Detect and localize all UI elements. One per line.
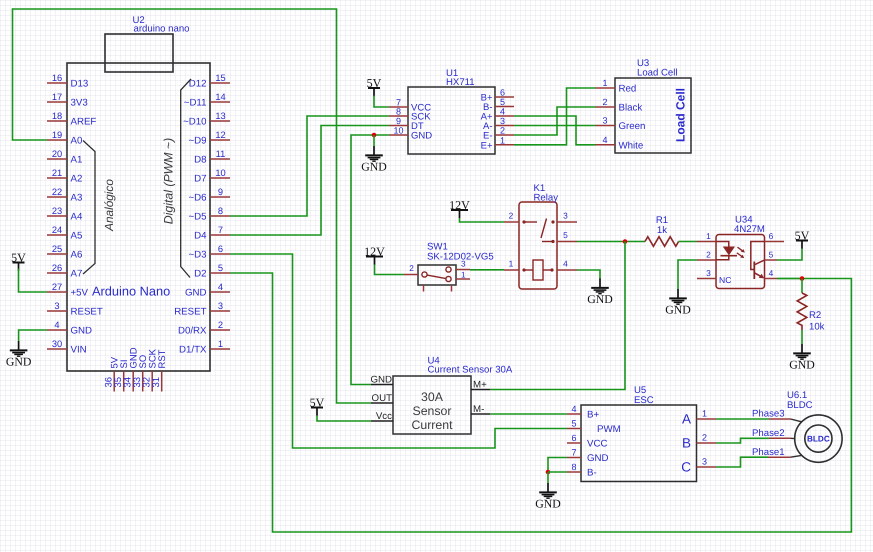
wire 5V to U4 Vcc [317, 416, 371, 421]
U2 pin 12 ~D9 [188, 130, 230, 147]
svg-text:2: 2 [706, 250, 711, 260]
svg-text:GND: GND [411, 131, 432, 142]
U6.1 lead phase2 [769, 437, 795, 439]
svg-text:A6: A6 [71, 250, 83, 261]
svg-text:3: 3 [54, 301, 59, 311]
svg-text:Digital (PWM ~): Digital (PWM ~) [162, 138, 176, 224]
svg-text:NC: NC [719, 275, 731, 285]
U2 pin 23 A4 [47, 206, 83, 223]
U1 pin 9 DT [389, 116, 424, 132]
power 12V at K1 [449, 198, 470, 219]
U4 pin Vcc [371, 411, 393, 422]
U2 pin 18 AREF [47, 111, 96, 128]
wire R1 to U34 pin 1 [679, 241, 697, 243]
resistor R1 1k [645, 215, 679, 246]
svg-text:21: 21 [52, 168, 62, 178]
relay K1 [519, 183, 558, 289]
connector U3 Load Cell [615, 58, 691, 153]
svg-text:31: 31 [151, 377, 162, 388]
wire U4 M- to U5 B+ [490, 413, 567, 415]
U2 pin 31 RST [151, 349, 168, 391]
U2 pin 25 A6 [47, 244, 82, 261]
svg-text:Sensor: Sensor [413, 404, 452, 418]
U2 pin 13 ~D10 [183, 111, 230, 128]
wire junction to R2 [801, 279, 803, 294]
svg-text:M-: M- [473, 404, 484, 415]
svg-text:VCC: VCC [587, 439, 607, 450]
U3 pin 3 Green [596, 116, 646, 133]
U1 pin 7 VCC [389, 98, 431, 114]
power 5V at U34 [795, 228, 810, 249]
svg-text:25: 25 [52, 244, 62, 254]
svg-text:RESET: RESET [174, 307, 206, 318]
svg-text:13: 13 [215, 111, 225, 121]
wire SW1 pin 3 to K1 pin 1 [470, 269, 504, 271]
K1 pin 3 [557, 211, 577, 223]
svg-text:1: 1 [218, 339, 223, 349]
svg-text:1: 1 [602, 78, 607, 88]
U34 pin 3 NC [697, 268, 731, 285]
svg-text:2: 2 [602, 97, 607, 107]
U2 pin 20 A1 [47, 149, 82, 166]
U2 pin 15 D12 [189, 73, 230, 90]
mcu U2 arduino nano [67, 15, 210, 371]
ground at U2 [6, 341, 32, 368]
U3 pin 2 Black [596, 97, 643, 114]
svg-text:4N27M: 4N27M [734, 224, 765, 235]
SW1 pin 3 [456, 260, 470, 270]
U5 pin 2 B [682, 433, 716, 451]
U34 phototransistor [751, 242, 765, 280]
svg-text:HX711: HX711 [446, 77, 475, 88]
wire junction to U4 M+ [490, 242, 625, 390]
U34 pin 2 [697, 250, 716, 261]
svg-text:A: A [682, 412, 691, 427]
svg-text:6: 6 [769, 231, 774, 241]
svg-text:GND: GND [587, 292, 613, 306]
svg-text:GND: GND [6, 354, 32, 368]
svg-text:10: 10 [215, 168, 225, 178]
svg-text:3: 3 [218, 301, 223, 311]
svg-text:5: 5 [571, 419, 576, 429]
svg-text:10: 10 [393, 126, 403, 136]
svg-text:1k: 1k [657, 225, 667, 236]
svg-text:~D3: ~D3 [188, 250, 206, 261]
junction U34 pin 4 / R2 [800, 276, 805, 281]
U1 pin 3 A- [483, 116, 514, 132]
svg-text:GND: GND [665, 302, 691, 316]
U2 pin 6 ~D3 [188, 244, 230, 261]
svg-text:Phase2: Phase2 [752, 428, 785, 439]
svg-text:3: 3 [706, 268, 711, 278]
U1 pin 5 B- [483, 97, 514, 113]
wire R2 to ground [801, 330, 803, 344]
svg-text:3: 3 [500, 116, 505, 126]
svg-text:2: 2 [509, 211, 514, 221]
svg-text:E+: E+ [481, 140, 493, 151]
svg-text:~D10: ~D10 [183, 117, 207, 128]
svg-text:D4: D4 [194, 231, 207, 242]
U2 pin 16 D13 [47, 73, 88, 90]
U4 pin GND [370, 375, 393, 386]
svg-text:A2: A2 [71, 174, 83, 185]
U2 pin 27 +5V [47, 282, 89, 299]
U2 pin 33 SO [132, 355, 149, 392]
esc U5 [581, 385, 697, 482]
wire D4 to U1 DT [230, 126, 389, 236]
svg-text:A1: A1 [71, 155, 83, 166]
U5 pin 5 PWM [567, 419, 621, 436]
ground at K1 [587, 279, 613, 306]
U2 pin 8 ~D5 [188, 206, 230, 223]
junction K1 pin 5 / R1 / M+ [623, 239, 628, 244]
svg-text:Relay: Relay [534, 193, 559, 204]
svg-text:6: 6 [571, 433, 576, 443]
svg-text:2: 2 [218, 320, 223, 330]
svg-text:19: 19 [52, 130, 62, 140]
wire U1 E+ to U3 Red [514, 88, 596, 145]
U4 pin M+ [471, 380, 490, 391]
svg-text:AREF: AREF [71, 117, 97, 128]
svg-text:Load Cell: Load Cell [637, 68, 678, 79]
motor U6.1 BLDC [787, 390, 842, 462]
svg-text:4: 4 [218, 282, 223, 292]
svg-text:7: 7 [571, 448, 576, 458]
svg-text:~D9: ~D9 [188, 136, 206, 147]
SW1 pin 1 [456, 271, 470, 280]
SW1 bottom stubs [424, 285, 452, 292]
resistor R2 10k [797, 293, 824, 333]
svg-text:GND: GND [587, 453, 609, 464]
K1 pin 4 [557, 259, 577, 271]
svg-text:9: 9 [218, 187, 223, 197]
U5 pin 7 GND [567, 448, 609, 465]
wire U5 B to Phase2 [716, 438, 769, 443]
svg-text:8: 8 [571, 462, 576, 472]
K1 coil [522, 260, 553, 280]
svg-text:17: 17 [52, 92, 62, 102]
svg-text:24: 24 [52, 225, 62, 235]
wire U5 GND to junction [548, 458, 567, 473]
svg-text:GND: GND [361, 159, 387, 173]
wire U1 GND to U4 GND [351, 135, 389, 385]
svg-text:1: 1 [509, 259, 514, 269]
wire U5 C to Phase1 [716, 457, 768, 467]
svg-text:12: 12 [215, 130, 225, 140]
K1 pin 5 [557, 230, 577, 242]
SW1 pin 2 [404, 264, 418, 275]
svg-text:1: 1 [706, 231, 711, 241]
svg-text:Vcc: Vcc [376, 411, 392, 422]
svg-text:VIN: VIN [71, 345, 87, 356]
svg-text:14: 14 [215, 92, 225, 102]
U2 pin 36 5V [104, 356, 121, 391]
U5 pin 4 B+ [567, 404, 599, 421]
U34 light arrows [737, 247, 745, 258]
U4 pin M- [471, 404, 490, 415]
U6.1 lead phase1 [768, 455, 802, 457]
svg-text:Current: Current [411, 418, 453, 432]
power 5V at U4 [310, 395, 325, 416]
svg-text:White: White [619, 140, 644, 151]
svg-text:R2: R2 [809, 310, 821, 321]
K1 switch contacts [522, 219, 554, 244]
wire U1 A+ to U3 White [514, 116, 596, 145]
svg-text:ESC: ESC [634, 395, 654, 406]
svg-text:Black: Black [619, 103, 643, 114]
svg-text:~D6: ~D6 [188, 193, 206, 204]
svg-text:27: 27 [52, 282, 62, 292]
svg-text:1: 1 [461, 271, 466, 280]
svg-text:Phase1: Phase1 [752, 447, 785, 458]
ground at U34 [665, 289, 691, 316]
svg-text:8: 8 [396, 107, 401, 117]
wire U5 A to Phase3 [716, 418, 769, 420]
U2 pin 35 SI [113, 360, 130, 392]
wire junction to ground [547, 472, 549, 483]
svg-text:9: 9 [396, 116, 401, 126]
U1 pin 2 E- [483, 126, 514, 142]
svg-text:BLDC: BLDC [807, 435, 830, 444]
svg-text:D12: D12 [189, 79, 207, 90]
svg-text:B: B [682, 436, 691, 451]
wire K1 pin 4 to ground [577, 270, 600, 279]
svg-text:A5: A5 [71, 231, 83, 242]
U2 digital bracket [181, 79, 191, 278]
svg-text:8: 8 [218, 206, 223, 216]
K1 pin 2 [504, 211, 519, 223]
U2 pin 11 D8 [194, 149, 230, 166]
U1 pin 4 A+ [481, 107, 514, 123]
wire K1 pin 5 to R1 [577, 241, 645, 243]
svg-text:Red: Red [619, 84, 637, 95]
svg-text:B-: B- [587, 468, 597, 479]
U34 pin 4 [765, 268, 778, 279]
svg-text:D0/RX: D0/RX [178, 326, 207, 337]
wire U34 pin 2 to ground [678, 260, 697, 289]
svg-text:2: 2 [500, 126, 505, 136]
K1 pin 1 [504, 259, 519, 271]
svg-text:11: 11 [216, 149, 226, 159]
svg-text:4: 4 [602, 135, 607, 145]
svg-text:3: 3 [602, 116, 607, 126]
U2 pin 17 3V3 [47, 92, 88, 109]
svg-text:7: 7 [218, 225, 223, 235]
U2 pin 21 A2 [47, 168, 82, 185]
wire U1 E- to U3 Black [514, 107, 596, 135]
svg-text:A0: A0 [71, 136, 83, 147]
U3 pin 4 White [596, 135, 644, 152]
svg-text:6: 6 [500, 88, 505, 98]
U2 pin 7 D4 [194, 225, 230, 242]
svg-text:22: 22 [52, 187, 62, 197]
ground at R2 [789, 344, 815, 371]
switch SW1 SK-12D02-VG5 [418, 242, 494, 286]
U2 pin 19 A0 [47, 130, 83, 147]
svg-text:GND: GND [789, 357, 815, 371]
power 5V at U2 [11, 250, 26, 271]
svg-text:Current Sensor 30A: Current Sensor 30A [428, 365, 513, 376]
svg-text:OUT: OUT [372, 393, 393, 404]
svg-text:6: 6 [218, 244, 223, 254]
U1 pin 10 GND [389, 126, 432, 142]
svg-text:Phase3: Phase3 [752, 409, 785, 420]
wire 5V to U2 +5V [19, 269, 48, 293]
svg-text:30A: 30A [421, 390, 444, 404]
svg-text:23: 23 [52, 206, 62, 216]
U34 LED [716, 242, 737, 260]
svg-text:GND: GND [185, 288, 207, 299]
svg-text:5: 5 [563, 230, 568, 240]
U5 pin 3 C [681, 457, 716, 475]
svg-text:2: 2 [409, 264, 414, 273]
svg-text:GND: GND [535, 496, 561, 510]
U2 pin 14 ~D11 [184, 92, 230, 109]
U1 pin 6 B+ [481, 88, 514, 104]
wire junction to U5 B- [548, 471, 567, 473]
svg-text:A3: A3 [71, 193, 83, 204]
U2 pin 24 A5 [47, 225, 82, 242]
wire D5 to U1 SCK [230, 116, 389, 216]
wire U2 GND to ground [19, 330, 47, 341]
svg-text:4: 4 [563, 259, 568, 269]
svg-text:2: 2 [702, 433, 707, 443]
svg-text:Analógico: Analógico [102, 179, 116, 232]
svg-text:3: 3 [461, 260, 466, 269]
wire U34 pin 4 to junction [777, 278, 802, 280]
power 5V at U1 [367, 76, 382, 97]
svg-text:GND: GND [370, 375, 392, 386]
svg-text:3V3: 3V3 [71, 98, 88, 109]
U2 pin 10 D7 [194, 168, 230, 185]
U4 pin OUT [371, 393, 393, 404]
svg-text:20: 20 [52, 149, 62, 159]
ground stem at U1 [373, 135, 375, 146]
svg-text:PWM: PWM [597, 424, 621, 435]
svg-text:26: 26 [52, 263, 62, 273]
svg-text:~D11: ~D11 [184, 98, 207, 109]
svg-text:D7: D7 [194, 174, 206, 185]
U2 pin 3 RESET [174, 301, 230, 318]
wire U1 A- to U3 Green [514, 125, 596, 127]
svg-text:RST: RST [157, 349, 168, 368]
U5 pin 8 B- [567, 462, 597, 479]
U2 pin 26 A7 [47, 263, 82, 280]
svg-text:15: 15 [215, 73, 225, 83]
ground at U5 [535, 483, 561, 510]
svg-text:Load Cell: Load Cell [674, 88, 688, 142]
svg-text:Green: Green [619, 121, 646, 132]
U2 pin 22 A3 [47, 187, 82, 204]
svg-text:D13: D13 [71, 79, 89, 90]
svg-text:A4: A4 [71, 212, 83, 223]
U2 pin 2 D0/RX [178, 320, 230, 337]
svg-text:+5V: +5V [71, 288, 89, 299]
U2 pin 30 VIN [47, 339, 87, 356]
U2 pin 34 GND [123, 347, 140, 391]
svg-text:B+: B+ [587, 410, 599, 421]
svg-text:D8: D8 [194, 155, 206, 166]
power 12V at SW1 [364, 244, 385, 264]
wire D3 to U5 PWM [230, 254, 567, 448]
svg-text:BLDC: BLDC [787, 400, 813, 411]
U6.1 lead phase3 [769, 419, 802, 422]
sensor U4 Current Sensor 30A [393, 356, 513, 435]
svg-text:5: 5 [500, 97, 505, 107]
svg-text:arduino nano: arduino nano [134, 24, 190, 35]
svg-text:5: 5 [769, 250, 774, 260]
junction U5 GND / B- [546, 470, 551, 475]
U2 pin 9 ~D6 [188, 187, 230, 204]
svg-text:GND: GND [71, 326, 93, 337]
U1 pin 8 SCK [389, 107, 431, 123]
U5 pin 6 VCC [567, 433, 607, 450]
svg-text:16: 16 [52, 73, 62, 83]
svg-text:~D5: ~D5 [188, 212, 206, 223]
svg-text:1: 1 [702, 409, 707, 419]
svg-text:Arduino Nano: Arduino Nano [92, 284, 170, 299]
wire 5V to U34 pin 5 [777, 249, 802, 260]
U1 pin 1 E+ [481, 135, 514, 151]
wire 5V to U1 VCC [374, 96, 389, 107]
wire 12V to K1 pin 2 [460, 218, 505, 222]
U2 analog bracket [83, 141, 95, 275]
svg-text:C: C [681, 460, 691, 475]
wire A0 to U4 OUT [13, 9, 372, 403]
U2 pin 5 D2 [194, 263, 230, 280]
wire 12V to SW1 pin 2 [375, 265, 405, 275]
junction U1 GND [372, 133, 377, 138]
svg-text:5: 5 [218, 263, 223, 273]
svg-text:D1/TX: D1/TX [179, 345, 207, 356]
U3 pin 1 Red [596, 78, 637, 95]
svg-text:10k: 10k [809, 322, 825, 333]
svg-text:30: 30 [52, 339, 62, 349]
svg-text:3: 3 [702, 457, 707, 467]
U2 pin 32 SCK [142, 348, 159, 391]
svg-text:M+: M+ [473, 380, 487, 391]
svg-text:18: 18 [52, 111, 62, 121]
svg-text:1: 1 [500, 135, 505, 145]
svg-text:3: 3 [563, 211, 568, 221]
U5 pin 1 A [682, 409, 716, 427]
svg-text:4: 4 [769, 268, 774, 278]
svg-text:4: 4 [571, 404, 576, 414]
svg-text:4: 4 [54, 320, 59, 330]
U2 pin 3 RESET [47, 301, 103, 318]
ic U1 HX711 [408, 68, 495, 154]
wire D2 to U34 pin 4 [230, 273, 851, 532]
svg-text:RESET: RESET [71, 307, 103, 318]
ground at U1 [361, 146, 387, 173]
U2 pin 1 D1/TX [179, 339, 230, 356]
svg-text:A7: A7 [71, 269, 83, 280]
svg-text:D2: D2 [194, 269, 206, 280]
optocoupler U34 4N27M [716, 215, 765, 289]
svg-text:4: 4 [500, 107, 505, 117]
U2 pin 4 GND [47, 320, 92, 337]
U2 pin 4 GND [185, 282, 230, 299]
U34 pin 6 [765, 231, 785, 242]
U34 pin 5 [765, 250, 778, 261]
U34 pin 1 [697, 231, 716, 242]
